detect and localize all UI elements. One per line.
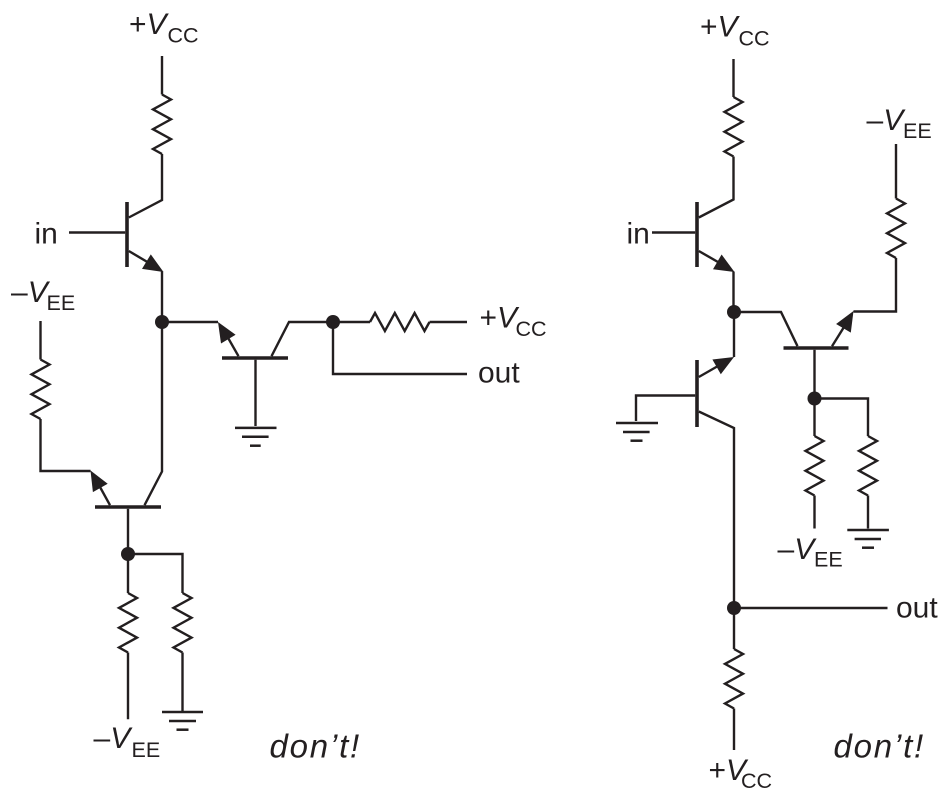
ground (Q3 base): [235, 428, 277, 446]
wire R3b to ground: [181, 653, 183, 712]
wire node B to R4: [333, 321, 370, 323]
svg-text:in: in: [627, 218, 650, 251]
wire node F to R8: [733, 608, 735, 649]
wire R4 to +VCC: [430, 321, 468, 323]
ground (R7b): [847, 530, 889, 548]
wire R3 to -VEE: [127, 653, 129, 720]
wire R2 to Q2 emitter: [41, 419, 91, 471]
wire Q1 emitter to node A: [161, 272, 163, 323]
svg-text:–V: –V: [778, 533, 818, 566]
wire node C down to R3: [127, 554, 129, 593]
transistor Q3 base bar: [222, 356, 288, 360]
svg-text:+V: +V: [480, 302, 521, 335]
svg-text:out: out: [896, 592, 938, 625]
ground (Q5 base): [616, 423, 658, 441]
svg-text:don’t!: don’t!: [834, 728, 926, 765]
wire R7 to -VEE: [813, 496, 815, 529]
wire node E to R7: [813, 399, 815, 437]
resistor R8: [725, 649, 743, 709]
svg-text:CC: CC: [168, 24, 199, 48]
wire node D down to Q5 emitter: [733, 312, 735, 357]
wire Q5 base to ground: [636, 396, 695, 422]
label +VCC (right circuit top): [700, 11, 770, 51]
transistor Q5 base bar: [695, 360, 699, 427]
svg-text:CC: CC: [741, 769, 772, 793]
resistor R4: [370, 313, 430, 331]
ground (R3b): [162, 712, 203, 730]
wire node A to Q3 emitter: [167, 321, 218, 323]
wire from R5 to Q4 collector: [699, 157, 734, 218]
wire R8 to +VCC: [733, 709, 735, 751]
svg-text:EE: EE: [814, 548, 843, 572]
wire R6 to -VEE: [895, 144, 897, 199]
wire input to Q1 base: [69, 231, 125, 233]
svg-text:in: in: [35, 218, 58, 251]
svg-text:+V: +V: [129, 8, 170, 41]
wire node E to R7b: [815, 399, 869, 437]
svg-text:–V: –V: [94, 722, 134, 755]
svg-text:+V: +V: [700, 11, 741, 44]
label -VEE (left upper): [11, 276, 75, 315]
svg-text:CC: CC: [516, 317, 547, 341]
wire node C to R3b: [128, 554, 183, 593]
resistor R7: [806, 436, 824, 496]
transistor Q2 base bar: [95, 505, 161, 509]
node D junction dot: [727, 305, 741, 319]
wire from +VCC to R5: [732, 59, 734, 97]
wire node B to out: [333, 322, 467, 374]
wire input to Q4 base: [652, 231, 695, 233]
transistor Q4 base bar: [695, 202, 699, 267]
transistor Q6 emitter with arrow: [832, 311, 854, 346]
svg-text:EE: EE: [132, 738, 161, 762]
wire Q6 emitter to R6: [854, 258, 897, 312]
transistor Q2 emitter arrow: [91, 471, 111, 506]
label +VCC (left circuit right): [480, 302, 547, 342]
node C junction dot: [121, 547, 135, 561]
label +VCC (left circuit top): [129, 8, 199, 48]
resistor R7b: [859, 436, 877, 496]
label +VCC (right circuit bottom): [709, 754, 773, 793]
wire node D to Q6: [734, 312, 798, 346]
wire node F to out: [734, 607, 888, 609]
wire -VEE to R2: [39, 321, 41, 360]
resistor R3b: [174, 593, 192, 653]
resistor R5: [725, 97, 743, 157]
label -VEE (right lower): [778, 533, 843, 572]
wire Q6 base to node E: [813, 350, 815, 392]
transistor Q4 emitter with arrow: [699, 251, 735, 272]
wire from R1 to Q1 collector: [129, 154, 162, 218]
label -VEE (left lower): [94, 722, 161, 762]
node A junction dot: [155, 315, 169, 329]
wire node A down to Q2 collector: [145, 322, 163, 505]
node E junction dot: [808, 392, 822, 406]
resistor R6: [887, 199, 905, 259]
svg-text:–V: –V: [11, 276, 51, 309]
wire from +VCC to R1: [161, 56, 163, 95]
wire Q4 emitter to node D: [732, 272, 734, 313]
svg-text:EE: EE: [47, 291, 76, 315]
svg-text:out: out: [478, 357, 520, 390]
transistor Q5 emitter arrow: [699, 357, 734, 377]
transistor Q1 base bar: [125, 202, 129, 267]
transistor Q6 base bar: [784, 346, 849, 350]
svg-text:CC: CC: [739, 27, 770, 51]
svg-text:don’t!: don’t!: [270, 728, 362, 765]
resistor R2: [32, 360, 50, 420]
wire Q2 base to node C: [127, 509, 129, 549]
transistor Q3 collector lead: [272, 322, 328, 356]
wire R7b to ground: [867, 496, 869, 529]
transistor Q5 collector lead: [699, 412, 734, 609]
transistor Q3 emitter arrow: [218, 322, 239, 356]
transistor Q1 emitter with arrow: [129, 251, 164, 272]
svg-text:–V: –V: [867, 104, 907, 137]
svg-text:EE: EE: [903, 119, 932, 143]
resistor R3: [119, 593, 137, 653]
node F junction dot: [727, 601, 741, 615]
label -VEE (right upper): [867, 104, 932, 143]
wire Q3 base to ground: [254, 360, 256, 426]
resistor R1: [153, 95, 171, 155]
node B junction dot: [326, 315, 340, 329]
